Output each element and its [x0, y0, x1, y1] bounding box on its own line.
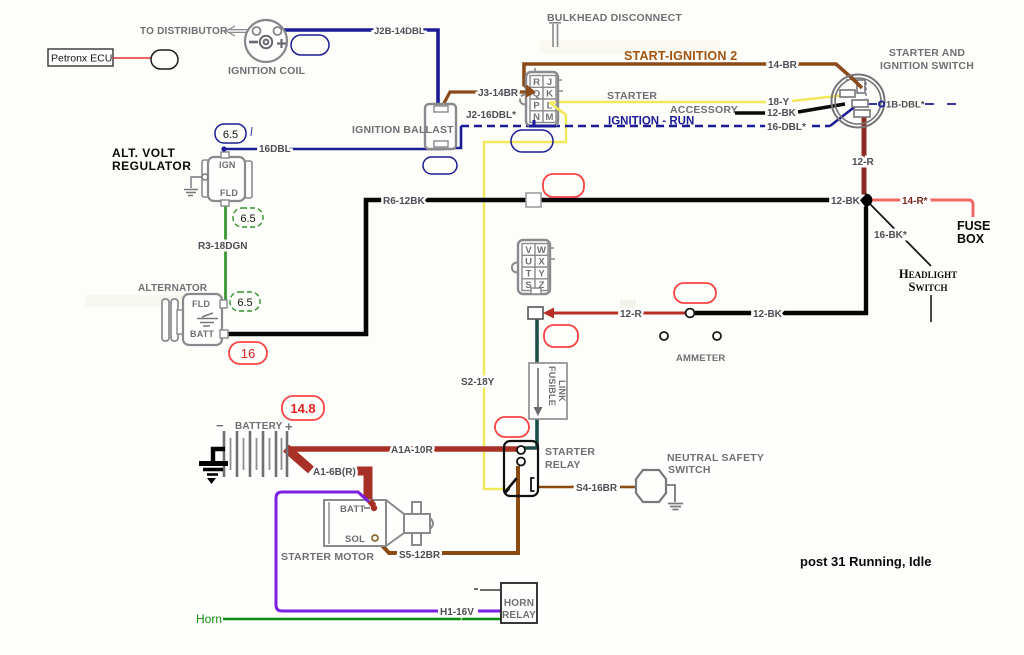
svg-text:X: X: [538, 257, 545, 268]
wire 16DBL navy from regulator IGN to ballast bottom pin: [224, 149, 444, 154]
alternator voltage regulator: [202, 152, 252, 206]
svg-text:ALTERNATOR: ALTERNATOR: [138, 283, 208, 294]
node blue 6.5 annotation: [215, 124, 252, 143]
wire H1-16V purple tip into BATT: [360, 494, 372, 505]
svg-text:T: T: [526, 268, 532, 279]
svg-text:U: U: [525, 257, 532, 268]
svg-text:FUSE: FUSE: [957, 219, 990, 233]
starter motor: [324, 500, 433, 546]
svg-text:16DBL: 16DBL: [259, 144, 291, 155]
svg-text:START-IGNITION 2: START-IGNITION 2: [624, 49, 737, 63]
wire IGNITION-RUN dark segment under N-M cells: [529, 125, 556, 128]
wire S5-12BR brown from starter motor SOL to starter relay: [377, 466, 518, 553]
svg-text:Horn: Horn: [196, 612, 222, 626]
svg-text:R: R: [533, 77, 540, 88]
svg-text:post 31 Running, Idle: post 31 Running, Idle: [800, 554, 931, 569]
node red 16 annotation: [229, 342, 267, 364]
svg-text:12-BK: 12-BK: [831, 196, 861, 207]
svg-text:K: K: [546, 89, 553, 100]
node red 14.8 annotation: [282, 396, 324, 420]
svg-text:Y: Y: [538, 268, 545, 279]
svg-text:SOL: SOL: [345, 534, 365, 545]
node green 6.5 annotation regulator: [233, 208, 263, 227]
svg-text:M: M: [546, 112, 554, 123]
svg-text:S: S: [525, 280, 531, 291]
svg-text:BATTERY: BATTERY: [235, 421, 283, 432]
svg-text:BOX: BOX: [957, 232, 985, 246]
svg-text:Q: Q: [533, 89, 540, 100]
svg-text:H1-16V: H1-16V: [440, 607, 474, 618]
ground alternator: [197, 313, 218, 326]
wire distributor arrow: [226, 26, 247, 36]
svg-text:FLD: FLD: [220, 188, 238, 198]
svg-text:14-BR: 14-BR: [768, 60, 798, 71]
wire horn relay stub: [474, 589, 501, 590]
starter and ignition switch: [832, 75, 885, 128]
node connector box on R6-12BK: [526, 193, 541, 207]
horn relay: [501, 583, 537, 623]
wire 12-R red from ammeter terminal left to connector box: [550, 312, 686, 315]
svg-text:J2-16DBL*: J2-16DBL*: [466, 110, 516, 121]
svg-text:+: +: [285, 419, 293, 434]
svg-text:TO DISTRIBUTOR: TO DISTRIBUTOR: [140, 26, 228, 37]
node junction 12-BK/12-R: [860, 194, 873, 207]
label bulkhead pins R J Q K P L N M: [533, 77, 554, 123]
wire S4-16BR brown from starter relay to neutral safety switch: [538, 486, 635, 489]
wire A1-6B(R) thick red battery to starter motor BATT: [286, 448, 374, 507]
wire 14-BR brown START-IGNITION 2 from bulkhead Q to ignition switch: [524, 64, 862, 92]
svg-text:IGNITION COIL: IGNITION COIL: [228, 65, 306, 77]
node ballast blue oval annotation: [423, 157, 457, 174]
node SOL terminal: [372, 535, 378, 541]
node coil blue oval annotation: [291, 35, 329, 55]
svg-text:12-BK: 12-BK: [753, 309, 783, 320]
bulkhead connector VWUXTYSZ: [512, 240, 555, 294]
wire ACCESSORY black stub to ignition switch: [735, 104, 845, 113]
node bulkhead symbol: [549, 23, 561, 47]
svg-text:S4-16BR: S4-16BR: [576, 483, 618, 494]
node Petronx ECU oval annotation: [151, 50, 178, 69]
svg-text:J3-14BR: J3-14BR: [478, 88, 519, 99]
node BATT terminal: [371, 505, 377, 511]
svg-text:Petronx ECU: Petronx ECU: [51, 53, 112, 65]
wire 16-BK* black diagonal to headlight switch: [869, 203, 931, 266]
svg-text:BATT: BATT: [340, 504, 365, 515]
wire A1A-10R dark red battery to starter relay: [288, 446, 518, 452]
wire headlight switch stub: [930, 295, 932, 322]
ammeter terminals: [660, 332, 668, 340]
fusible link: [529, 363, 567, 419]
node red oval annotation below 12-R box: [544, 325, 578, 347]
svg-text:12-R: 12-R: [620, 309, 642, 320]
svg-text:SWITCH: SWITCH: [668, 464, 711, 476]
wire 14-BR tip into switch slot: [851, 77, 862, 88]
svg-text:−: −: [216, 418, 224, 433]
wire J3-14BR brown from ballast top pin to bulkhead Q: [443, 92, 525, 105]
node connector box 12-R target: [528, 307, 543, 319]
node red oval annotation left of relay: [495, 417, 529, 437]
svg-text:A1-6B(R): A1-6B(R): [313, 467, 356, 478]
svg-text:R3-18DGN: R3-18DGN: [198, 241, 247, 252]
svg-text:IGNITION - RUN: IGNITION - RUN: [608, 116, 694, 128]
svg-text:NEUTRAL SAFETY: NEUTRAL SAFETY: [667, 452, 764, 464]
svg-text:S2-18Y: S2-18Y: [461, 377, 495, 388]
svg-text:STARTER MOTOR: STARTER MOTOR: [281, 551, 374, 563]
svg-text:R6-12BK: R6-12BK: [383, 196, 425, 207]
node red oval annotation above R6-12BK: [543, 174, 584, 197]
svg-text:J2B-14DBL: J2B-14DBL: [374, 26, 425, 37]
wire H1-16V purple from starter motor BATT to horn relay: [276, 492, 501, 611]
svg-text:6.5: 6.5: [240, 213, 255, 225]
svg-text:Headlight: Headlight: [899, 267, 957, 281]
ground neutral safety switch: [666, 485, 683, 510]
svg-text:16-DBL*: 16-DBL*: [767, 122, 806, 133]
ignition coil: [245, 20, 287, 62]
svg-text:6.5: 6.5: [223, 129, 238, 141]
Petronx ECU box: [48, 49, 113, 66]
svg-text:14-R*: 14-R*: [902, 196, 928, 207]
node ammeter feed terminal: [686, 309, 695, 318]
svg-text:Switch: Switch: [909, 280, 948, 294]
wire R6-12BK black: alternator BATT up and across to junction: [227, 200, 862, 334]
node red oval annotation above ammeter: [674, 283, 716, 303]
svg-text:STARTER: STARTER: [607, 90, 657, 102]
svg-text:W: W: [537, 245, 546, 256]
svg-text:RELAY: RELAY: [545, 459, 581, 471]
wire 12-BK black from junction down then left to ammeter: [695, 200, 866, 313]
svg-text:IGN: IGN: [219, 160, 236, 170]
svg-text:STARTER: STARTER: [545, 446, 595, 458]
ignition ballast: [425, 104, 456, 149]
label bulkhead pins V W U X T Y S Z: [525, 245, 546, 291]
svg-text:12-R: 12-R: [852, 157, 874, 168]
node bulkhead blue oval annotation: [511, 130, 553, 152]
wire Petronx ECU red lead: [113, 57, 151, 59]
svg-text:BATT: BATT: [190, 329, 214, 339]
wire J2B-14DBL navy from coil to ballast top pin: [281, 30, 438, 105]
wire S2-18Y yellow from bulkhead L pin down to starter relay: [484, 103, 566, 489]
wire 12-R dark red from ignition switch down to junction: [862, 115, 867, 197]
wire 18-Y yellow STARTER from L pin to ignition switch: [551, 95, 846, 102]
wire J3-14BR arrow into Q over connector: [525, 90, 530, 93]
svg-text:RELAY: RELAY: [502, 610, 536, 621]
ground regulator: [184, 174, 208, 196]
svg-text:BULKHEAD DISCONNECT: BULKHEAD DISCONNECT: [547, 12, 682, 24]
node regulator IGN dot: [221, 146, 226, 151]
ground battery: [199, 449, 228, 475]
svg-text:STARTER AND: STARTER AND: [889, 47, 965, 59]
svg-text:P: P: [533, 100, 540, 111]
svg-text:1B-DBL*: 1B-DBL*: [886, 100, 925, 111]
svg-text:16: 16: [241, 346, 255, 361]
svg-text:S5-12BR: S5-12BR: [399, 550, 441, 561]
svg-text:J: J: [547, 77, 552, 88]
svg-text:18-Y: 18-Y: [768, 97, 789, 108]
svg-text:FUSIBLE: FUSIBLE: [547, 366, 557, 406]
wire IGNITION - RUN navy dashed to bulkhead N and ignition switch: [461, 125, 830, 128]
node green 6.5 annotation alternator: [230, 292, 260, 311]
node 12-R arrowhead into connector box: [543, 308, 554, 319]
wire 1B-DBL* navy dashed right of switch: [869, 101, 959, 106]
svg-text:REGULATOR: REGULATOR: [112, 159, 191, 173]
svg-text:AMMETER: AMMETER: [676, 353, 725, 364]
neutral safety switch: [636, 470, 666, 502]
svg-text:Z: Z: [539, 280, 545, 291]
wire 14-R* red from junction to fuse box: [872, 200, 973, 217]
wire fusible link teal from connector box to starter relay: [522, 319, 537, 448]
battery: [224, 431, 287, 477]
svg-text:6.5: 6.5: [237, 297, 252, 309]
svg-text:ALT. VOLT: ALT. VOLT: [112, 146, 176, 160]
wire Horn green to horn relay: [223, 618, 501, 620]
svg-text:A1A-10R: A1A-10R: [391, 445, 433, 456]
bulkhead connector RJQKPLNM: [520, 68, 563, 126]
svg-text:IGNITION SWITCH: IGNITION SWITCH: [880, 60, 974, 72]
wire R3-18DGN green from regulator FLD to alternator FLD: [224, 206, 227, 307]
svg-text:12-BK: 12-BK: [767, 108, 797, 119]
starter relay: [504, 441, 538, 496]
svg-text:ACCESSORY: ACCESSORY: [670, 104, 738, 116]
alternator: [162, 294, 228, 345]
wire 18-Y yellow exit from L cell over connector: [549, 101, 556, 103]
wire IGNITION-RUN navy elbow from ballast pin up to dashed run: [444, 126, 461, 148]
wire A1-6B(R) tip into BATT: [370, 501, 374, 506]
svg-text:LINK: LINK: [557, 380, 567, 402]
wire 16-DBL* navy solid diagonal into ignition switch: [830, 105, 857, 126]
svg-text:V: V: [525, 245, 532, 256]
node bulkhead N pin tick: [533, 121, 536, 127]
svg-text:HORN: HORN: [504, 598, 534, 609]
svg-text:FLD: FLD: [192, 299, 210, 309]
svg-text:14.8: 14.8: [290, 401, 315, 416]
svg-text:IGNITION BALLAST: IGNITION BALLAST: [352, 124, 454, 136]
svg-text:16-BK*: 16-BK*: [874, 230, 907, 241]
